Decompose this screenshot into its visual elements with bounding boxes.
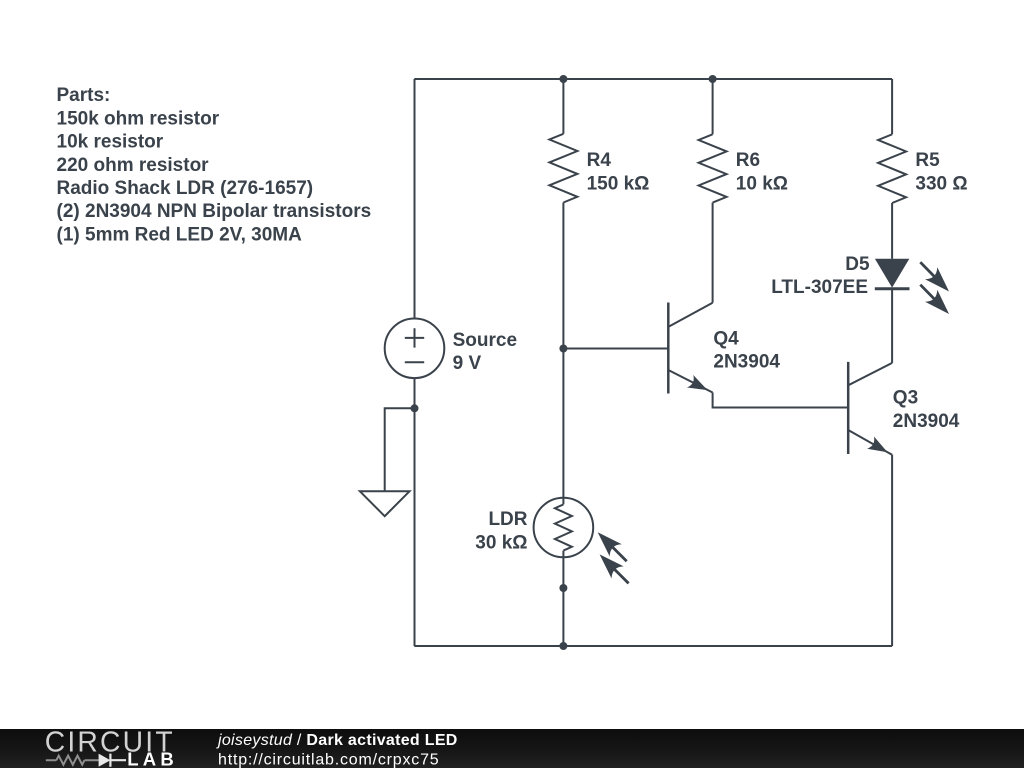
svg-text:R4: R4 [587,150,612,171]
svg-text:Source: Source [453,330,517,351]
LDR R photoresistor circle [534,498,594,558]
LED D5 light arrows [914,256,955,320]
node at R6 top [709,75,717,83]
transistor Q3 emitter arrowhead [867,437,891,459]
transistor Q4 base bar [667,303,670,394]
footer logo diode glyph [99,754,111,767]
wire bottom rail [414,645,892,647]
wire R4 top lead [562,79,564,134]
svg-text:LDR: LDR [488,509,527,530]
svg-text:D5: D5 [845,254,870,275]
svg-text:R6: R6 [736,150,760,171]
footer logo resistor glyph [46,756,99,765]
wire R6 top lead [712,79,714,134]
node at R4 top [559,75,567,83]
voltage source minus sign [405,361,424,363]
node bottom rail [559,642,567,650]
node source-ground [411,404,419,412]
svg-text:Q3: Q3 [893,388,918,409]
wire base of Q4 [563,348,668,350]
transistor Q4 emitter arrowhead [687,375,711,396]
wire ground branch [385,408,415,491]
wire LED to Q3 collector [891,289,893,363]
LED D5 cathode bar [875,287,910,290]
LDR light arrows [592,526,635,589]
footer bar [0,729,1024,768]
svg-text:150k ohm resistor: 150k ohm resistor [57,108,220,129]
resistor R4 [549,134,577,203]
LDR inner zigzag [555,504,572,550]
svg-text:R5: R5 [915,150,940,171]
svg-text:Q4: Q4 [713,329,739,350]
resistor R6 [699,134,727,202]
svg-text:(2) 2N3904 NPN Bipolar transis: (2) 2N3904 NPN Bipolar transistors [57,201,372,222]
svg-text:Parts:: Parts: [57,85,111,106]
transistor Q3 base bar [847,362,850,454]
svg-text:joiseystud / Dark activated LE: joiseystud / Dark activated LED [216,732,458,749]
wire R5 to LED [891,203,893,259]
node R4-Q4 base [559,345,567,353]
svg-text:10k resistor: 10k resistor [57,132,164,153]
svg-text:10 kΩ: 10 kΩ [736,173,788,194]
voltage source plus sign [405,328,424,347]
transistor Q3 collector diagonal [848,363,892,385]
wire top rail [414,78,892,80]
svg-text:Radio Shack LDR (276-1657): Radio Shack LDR (276-1657) [57,178,314,199]
wire R5 top lead [891,79,893,134]
wire LDR bottom lead [562,551,564,646]
svg-text:150 kΩ: 150 kΩ [587,173,650,194]
svg-text:330 Ω: 330 Ω [915,173,967,194]
wire R6 to Q4 collector [712,203,714,303]
svg-text:LAB: LAB [127,749,178,768]
wire Q3 emitter down [891,455,893,646]
resistor R5 [878,134,906,203]
ground [360,491,410,516]
svg-text:9 V: 9 V [453,353,482,374]
svg-text:220 ohm resistor: 220 ohm resistor [57,155,210,176]
voltage source V1 circle [385,319,445,379]
svg-text:(1) 5mm Red LED 2V, 30MA: (1) 5mm Red LED 2V, 30MA [57,224,303,245]
wire Q4 emitter to Q3 base [713,393,849,408]
wire left rail upper [414,79,416,319]
svg-text:http://circuitlab.com/crpxc75: http://circuitlab.com/crpxc75 [218,751,440,768]
svg-text:LTL-307EE: LTL-307EE [771,277,868,298]
node below LDR [559,584,567,592]
wire left rail lower [414,378,416,646]
wire R4 bottom to LDR [562,203,564,505]
LED D5 triangle [875,259,909,288]
svg-text:30 kΩ: 30 kΩ [475,532,527,553]
svg-text:2N3904: 2N3904 [713,352,780,373]
svg-text:2N3904: 2N3904 [893,411,960,432]
transistor Q4 collector diagonal [668,303,712,327]
transistor Q3 emitter diagonal [848,430,892,455]
transistor Q4 emitter diagonal [668,370,712,393]
